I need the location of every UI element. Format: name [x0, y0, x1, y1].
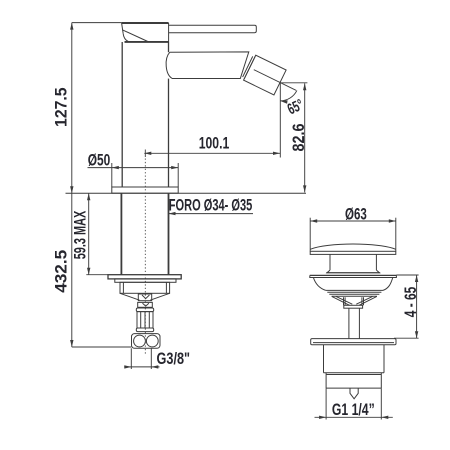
drain neck	[330, 254, 376, 270]
dimension G1 1/4	[315, 388, 393, 419]
drain lower flange	[311, 339, 396, 345]
hose adapter 2	[138, 302, 153, 307]
hose adapter 1	[138, 294, 151, 301]
65 degree angle dimension	[280, 82, 307, 157]
faucet spout	[166, 52, 249, 79]
dimension diameter 63	[310, 218, 396, 252]
deck line	[66, 192, 307, 194]
dimension diameter 50	[88, 163, 179, 187]
drain body	[324, 345, 385, 373]
label 82.6	[289, 124, 308, 152]
faucet lever bar	[169, 25, 257, 32]
svg-text:FORO Ø34- Ø35: FORO Ø34- Ø35	[169, 196, 253, 215]
svg-text:432.5: 432.5	[52, 250, 71, 293]
threaded shank	[121, 193, 168, 275]
label 127.5	[51, 87, 70, 127]
faucet body left edge	[121, 42, 123, 187]
label FORO	[169, 196, 253, 215]
dimension G3/8	[124, 348, 159, 369]
label 65 deg	[285, 96, 306, 118]
label 100.1	[199, 134, 230, 153]
dimension line 100.1	[144, 152, 280, 155]
drain threaded section	[324, 373, 385, 388]
drain strainer funnel	[332, 296, 377, 308]
braided hose	[137, 312, 153, 328]
hose ferrule top	[136, 308, 153, 312]
drain bead ring	[326, 270, 380, 273]
svg-text:127.5: 127.5	[51, 87, 70, 127]
dimension line 82.6	[303, 83, 306, 192]
drain cap	[310, 244, 396, 254]
dimension 4 - 65	[394, 275, 419, 338]
label diameter 50	[88, 151, 111, 170]
svg-text:Ø50: Ø50	[88, 151, 111, 170]
svg-text:100.1: 100.1	[199, 134, 230, 153]
faucet handle cap	[122, 23, 169, 42]
faucet body right edge	[168, 42, 170, 187]
washer plate	[108, 275, 181, 283]
label G3/8	[157, 349, 191, 368]
svg-text:Ø63: Ø63	[345, 205, 367, 224]
base flange	[112, 187, 178, 193]
svg-text:4 - 65: 4 - 65	[401, 287, 420, 318]
label 432.5	[52, 250, 71, 293]
faucet centerline	[144, 150, 146, 355]
svg-text:G1 1/4”: G1 1/4”	[332, 400, 375, 419]
hose ferrule bottom	[136, 328, 153, 332]
svg-text:65°: 65°	[285, 96, 306, 118]
svg-text:59.3 MAX: 59.3 MAX	[71, 210, 90, 259]
aerator head	[242, 54, 303, 103]
svg-text:82.6: 82.6	[289, 124, 308, 152]
dimension 59.3 MAX	[86, 193, 108, 275]
label 59.3 MAX	[71, 210, 90, 259]
label diameter 63	[345, 205, 367, 224]
drain pin	[350, 388, 358, 399]
svg-text:G3/8": G3/8"	[157, 349, 191, 368]
dimension lines 127.5 and 432.5	[70, 23, 131, 347]
hose end nuts G3/8	[132, 334, 161, 349]
label 4 - 65	[401, 287, 420, 318]
FORO leader line	[169, 212, 254, 215]
label G1 1/4	[332, 400, 375, 419]
drain stem	[349, 308, 360, 338]
drain rosette	[310, 275, 397, 296]
hose taper	[120, 293, 170, 300]
mounting nut	[120, 282, 170, 293]
